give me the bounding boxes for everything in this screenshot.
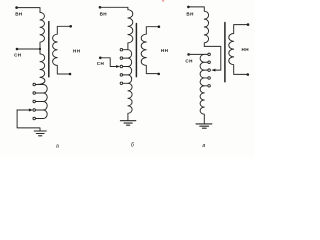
terminal NN-b bottom <box>157 73 160 76</box>
tap stubs and loops b <box>123 50 132 84</box>
tap circle v2 <box>208 61 211 64</box>
tap circle v4 <box>208 77 211 80</box>
winding W2v (LV) <box>229 25 248 75</box>
terminal SN-v <box>187 53 190 56</box>
wire VN-a to winding top <box>17 8 40 13</box>
winding W2a (LV) <box>53 26 71 74</box>
wire SN-a <box>17 48 40 50</box>
svg-text:НН: НН <box>73 49 81 54</box>
tap circle b3 <box>120 65 123 68</box>
terminal SN-a <box>16 48 19 51</box>
svg-text:СН: СН <box>97 61 105 66</box>
svg-text:ВН: ВН <box>186 12 194 17</box>
ground a <box>34 131 46 136</box>
winding W1a lower (common) <box>40 49 45 77</box>
terminal NN-v bottom <box>247 73 250 76</box>
svg-text:СН: СН <box>14 53 22 58</box>
svg-text:в: в <box>202 143 205 149</box>
winding W1a upper (HV) <box>40 12 44 49</box>
wire VN-v <box>188 7 204 11</box>
tap stubs and loops v <box>200 54 208 85</box>
tap circle a5 <box>33 117 36 120</box>
svg-text:НН: НН <box>242 47 250 52</box>
tap circle b4 <box>120 74 123 77</box>
svg-text:ВН: ВН <box>100 12 108 17</box>
tap circle a2 <box>33 92 36 95</box>
ground v <box>196 124 212 128</box>
tap selector arrow a <box>17 109 29 111</box>
terminal VN-a <box>15 6 18 9</box>
selector arrow v <box>211 69 215 72</box>
tap circle a1 <box>33 83 36 86</box>
svg-text:ВН: ВН <box>15 11 23 16</box>
core v <box>224 23 226 82</box>
wire VN-b <box>100 7 128 9</box>
core a <box>48 22 50 77</box>
transition loop to tap 1 <box>37 77 45 84</box>
wire to ground a <box>17 110 40 131</box>
svg-text:НН: НН <box>161 48 169 53</box>
winding W1b lower <box>128 83 132 120</box>
terminal VN-b <box>99 6 102 9</box>
tap circle b1 <box>120 48 123 51</box>
winding W1v lower <box>200 86 204 124</box>
tap circle v1 <box>208 53 211 56</box>
tap circle v5 <box>208 85 211 88</box>
core b <box>135 24 137 77</box>
terminal NN-b top <box>158 25 161 28</box>
tap circle b5 <box>120 82 123 85</box>
terminal SN-b <box>99 57 102 60</box>
tap circle b2 <box>120 57 123 60</box>
wire from W1v to selector <box>204 46 221 70</box>
scan speck <box>162 0 164 2</box>
svg-text:СН: СН <box>185 58 193 63</box>
winding W1b upper <box>128 10 133 50</box>
winding W1v upper <box>204 11 208 46</box>
wire SN-b with arrow <box>100 58 116 67</box>
wire SN-v <box>189 53 208 55</box>
svg-text:б: б <box>131 143 135 149</box>
tap stubs and loops a <box>36 85 48 119</box>
terminal NN-v top <box>247 23 250 26</box>
tap circle a3 <box>33 100 36 103</box>
tap circle v3 <box>208 69 211 72</box>
terminal VN-v <box>187 6 190 9</box>
ground b <box>120 121 135 126</box>
terminal NN-a top <box>69 25 72 28</box>
svg-text:а: а <box>56 144 59 150</box>
tap circle a4 <box>33 109 36 112</box>
node SN-a junction <box>39 48 41 50</box>
winding W2b (LV) <box>141 27 159 74</box>
terminal NN-a bottom <box>69 73 72 76</box>
